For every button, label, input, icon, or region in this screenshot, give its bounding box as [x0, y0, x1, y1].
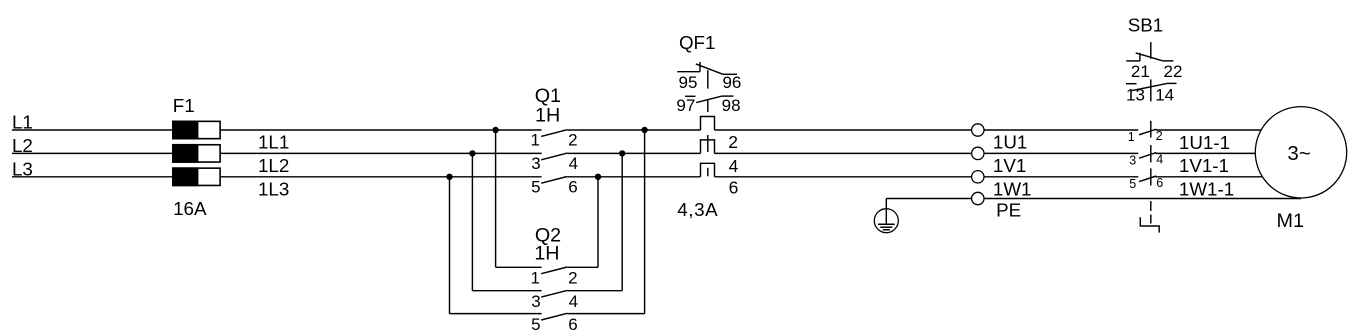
QF1 thermal pole 1-2 — [701, 117, 715, 131]
wire plug to motor — [1156, 152, 1256, 154]
QF1 trip linkage dashed — [707, 70, 709, 176]
fuse F1 rating 16A — [173, 198, 207, 219]
wire PE to ground — [886, 199, 971, 225]
svg-text:QF1: QF1 — [679, 32, 716, 53]
svg-text:1: 1 — [1128, 130, 1135, 144]
node on L2 left of Q1 — [470, 151, 475, 156]
svg-text:1L3: 1L3 — [258, 179, 289, 200]
wire Q1 contact to breaker QF1 pole — [567, 176, 700, 178]
terminal 1U1 — [972, 124, 1028, 153]
wire terminal to plug pin — [984, 152, 1138, 154]
svg-text:95: 95 — [679, 73, 698, 92]
svg-text:16A: 16A — [173, 198, 207, 219]
svg-text:1H: 1H — [534, 242, 559, 264]
wire overload to terminal — [715, 176, 972, 178]
wire L2 supply to fuse — [12, 152, 173, 154]
SB1 actuator linkage dashed — [1150, 42, 1152, 223]
svg-text:97: 97 — [676, 96, 695, 115]
node on L3 left of Q1 — [447, 174, 452, 179]
svg-text:21: 21 — [1131, 62, 1150, 81]
node on phase 2 right of Q1 — [620, 151, 625, 156]
terminal PE — [972, 192, 1022, 220]
contactor Q1 function 1H — [535, 105, 560, 127]
svg-text:3: 3 — [531, 154, 540, 173]
wire 1L2 fuse to Q1 contact — [220, 152, 541, 154]
svg-text:1: 1 — [531, 131, 540, 150]
QF1 rating 4,3A — [677, 199, 718, 220]
wire Q2 branch down-left 1 — [495, 130, 497, 267]
svg-text:4: 4 — [729, 156, 739, 176]
contactor Q2 contact 3-4 — [472, 290, 622, 311]
wire L1 supply to fuse — [12, 129, 173, 131]
svg-text:98: 98 — [722, 96, 741, 115]
contactor Q2 contact 5-6 — [450, 313, 645, 334]
svg-text:1H: 1H — [535, 105, 560, 127]
wire label 1V1-1 — [1179, 155, 1229, 176]
svg-text:3~: 3~ — [1287, 142, 1310, 165]
contactor Q1 contact 3-4 — [531, 153, 578, 173]
contactor Q2 label — [535, 224, 561, 246]
contactor Q1 contact 5-6 — [531, 177, 578, 197]
svg-text:1U1-1: 1U1-1 — [1179, 132, 1230, 153]
wire plug to motor — [1156, 129, 1262, 131]
contactor Q1 contact 1-2 — [531, 130, 578, 150]
wire Q2 branch down-left 3 — [449, 177, 451, 314]
wire label 1L3 — [258, 179, 289, 200]
svg-text:5: 5 — [531, 177, 540, 196]
wire Q1 contact to breaker QF1 pole — [567, 152, 700, 154]
svg-text:1V1: 1V1 — [993, 155, 1026, 176]
QF1 pin label 4 — [729, 156, 739, 176]
node on L1 left of Q1 — [493, 127, 498, 132]
fuse F1 label — [173, 95, 195, 116]
wire label 1L2 — [258, 155, 289, 176]
SB1 main contact 3-4 — [1129, 152, 1163, 167]
QF1 pin label 2 — [728, 132, 738, 152]
motor M1 label — [1277, 210, 1304, 232]
wire label 1W1-1 — [1179, 179, 1234, 200]
terminal 1V1 — [972, 147, 1027, 176]
wire Q2 branch up-right 3 — [644, 130, 646, 314]
motor M1 — [1255, 107, 1346, 198]
contactor Q2 function 1H — [534, 242, 559, 264]
svg-text:1U1: 1U1 — [993, 132, 1027, 153]
svg-text:5: 5 — [1129, 177, 1136, 191]
net label L2 — [12, 135, 33, 156]
fuse F1 pole 1 — [173, 121, 220, 138]
wire terminal to plug pin — [984, 176, 1138, 178]
net label L3 — [12, 159, 33, 180]
wire Q2 branch down-left 2 — [471, 153, 473, 290]
svg-text:4: 4 — [1156, 152, 1163, 166]
wire Q2 branch up-right 1 — [597, 177, 599, 267]
svg-text:3: 3 — [531, 292, 540, 311]
svg-text:6: 6 — [568, 177, 577, 196]
QF1 thermal pole 5-6 — [701, 163, 715, 177]
SB1 main contact 5-6 — [1129, 176, 1163, 191]
SB1 main contact 1-2 — [1128, 129, 1163, 144]
svg-text:14: 14 — [1155, 86, 1174, 105]
svg-text:13: 13 — [1126, 86, 1145, 105]
contactor Q2 contact 1-2 — [496, 267, 598, 288]
svg-text:PE: PE — [996, 199, 1021, 220]
wire plug to motor — [1156, 176, 1263, 178]
svg-text:4: 4 — [569, 292, 578, 311]
SB1 aux NC contact 21-22 — [1126, 53, 1182, 81]
QF1 aux NC contact 95-96 — [677, 62, 741, 92]
svg-text:96: 96 — [722, 73, 741, 92]
QF1 aux NO contact 97-98 — [676, 96, 740, 115]
wire PE terminal to motor — [984, 198, 1301, 200]
protective earth symbol — [874, 209, 898, 233]
svg-text:4,3A: 4,3A — [677, 199, 718, 220]
fuse F1 pole 3 — [173, 168, 220, 185]
wire overload to terminal — [715, 152, 972, 154]
wire 1L3 fuse to Q1 contact — [220, 176, 541, 178]
svg-text:22: 22 — [1164, 62, 1183, 81]
SB1 aux NO contact 13-14 — [1126, 83, 1177, 104]
node on phase 3 right of Q1 — [595, 174, 600, 179]
QF1 thermal pole 3-4 — [701, 140, 715, 154]
svg-text:1W1-1: 1W1-1 — [1179, 179, 1234, 200]
svg-text:3: 3 — [1129, 154, 1136, 168]
QF1 pin label 6 — [729, 177, 739, 197]
svg-text:5: 5 — [531, 315, 540, 334]
wire label 1U1-1 — [1179, 132, 1230, 153]
SB1 operator symbol — [1140, 217, 1159, 232]
svg-text:1: 1 — [531, 269, 540, 288]
svg-text:4: 4 — [569, 154, 578, 173]
svg-text:2: 2 — [568, 269, 577, 288]
fuse F1 pole 2 — [173, 145, 220, 162]
svg-text:2: 2 — [1156, 129, 1163, 143]
breaker QF1 label — [679, 32, 716, 53]
switch SB1 label — [1128, 14, 1164, 35]
svg-text:SB1: SB1 — [1128, 14, 1164, 35]
svg-text:F1: F1 — [173, 95, 195, 116]
wire label 1L1 — [258, 132, 289, 153]
contactor Q1 label — [535, 85, 561, 107]
node on phase 1 right of Q1 — [642, 127, 647, 132]
svg-text:1L1: 1L1 — [258, 132, 289, 153]
wire terminal to plug pin — [984, 129, 1138, 131]
svg-text:1W1: 1W1 — [993, 179, 1032, 200]
wire overload to terminal — [715, 129, 972, 131]
wire Q1 contact to breaker QF1 pole — [567, 129, 700, 131]
wire Q2 branch up-right 2 — [621, 153, 623, 290]
svg-text:2: 2 — [728, 132, 738, 152]
svg-text:6: 6 — [1156, 176, 1163, 190]
svg-text:2: 2 — [568, 131, 577, 150]
net label L1 — [12, 112, 33, 133]
wire L3 supply to fuse — [12, 176, 173, 178]
svg-text:6: 6 — [729, 177, 739, 197]
svg-text:1V1-1: 1V1-1 — [1179, 155, 1229, 176]
terminal 1W1 — [972, 171, 1032, 200]
svg-text:M1: M1 — [1277, 210, 1304, 232]
svg-text:6: 6 — [568, 315, 577, 334]
wire 1L1 fuse to Q1 contact — [220, 129, 541, 131]
svg-text:1L2: 1L2 — [258, 155, 289, 176]
